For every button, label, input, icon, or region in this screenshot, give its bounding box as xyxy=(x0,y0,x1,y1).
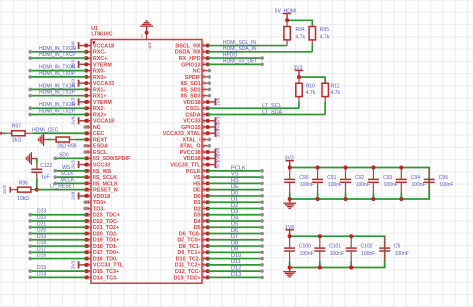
pin 70 IIS_SD1 (right) xyxy=(181,80,212,87)
svg-text:WS: WS xyxy=(62,165,71,171)
wire net DE xyxy=(208,184,264,191)
node rail junction xyxy=(316,166,320,170)
svg-text:3V3: 3V3 xyxy=(71,260,77,269)
svg-text:HDMI_CEC: HDMI_CEC xyxy=(32,127,59,133)
svg-text:D5: D5 xyxy=(194,225,201,231)
supply 3V3 at pin VCC33_TTL xyxy=(206,160,222,169)
supply 3V3 at R96 xyxy=(2,185,10,194)
svg-text:RX2+: RX2+ xyxy=(93,112,107,118)
capacitor C122 1uF xyxy=(31,158,52,181)
svg-text:D19_TD1+: D19_TD1+ xyxy=(93,238,119,244)
node rail junction xyxy=(288,166,292,170)
svg-text:D2: D2 xyxy=(231,203,238,209)
pin 45 D7_TC0+ (right) xyxy=(177,237,209,244)
svg-text:VCCA18: VCCA18 xyxy=(93,119,114,125)
ground at EP xyxy=(140,21,153,33)
wire net PCLK xyxy=(208,165,264,172)
svg-text:69: 69 xyxy=(200,86,205,91)
svg-text:1V8: 1V8 xyxy=(285,225,294,231)
svg-text:NC: NC xyxy=(93,125,101,131)
svg-text:77: 77 xyxy=(140,34,144,38)
svg-text:RX1-: RX1- xyxy=(93,87,105,93)
svg-text:ESCL: ESCL xyxy=(93,150,108,156)
pin 52 D0 (right) xyxy=(194,193,210,200)
svg-text:D16: D16 xyxy=(37,253,46,259)
svg-text:VCCA33: VCCA33 xyxy=(93,81,114,87)
svg-text:HDMI_IN_TXCP: HDMI_IN_TXCP xyxy=(39,52,76,58)
wire net D12 xyxy=(208,266,264,273)
svg-text:47: 47 xyxy=(200,224,205,229)
wire net HDMI_IN_TX2N xyxy=(28,102,86,110)
svg-text:HDMI_IN_TXCN: HDMI_IN_TXCN xyxy=(39,46,76,52)
svg-text:4.7k: 4.7k xyxy=(331,90,341,96)
svg-text:62: 62 xyxy=(200,130,205,135)
capacitor C92 100nF xyxy=(340,168,370,200)
svg-text:EP: EP xyxy=(147,43,152,49)
svg-text:TD3+: TD3+ xyxy=(93,200,106,206)
wire net D10 xyxy=(208,253,264,260)
svg-text:1V8: 1V8 xyxy=(71,191,77,200)
wire 1V8 rail top xyxy=(290,236,385,267)
wire 5V to R95 xyxy=(287,20,312,26)
svg-text:HDMI_IN_TX2P: HDMI_IN_TX2P xyxy=(39,108,76,114)
svg-text:56: 56 xyxy=(200,168,205,173)
pin 29 D22_TDC- (left) xyxy=(84,218,119,225)
svg-text:3V3: 3V3 xyxy=(294,66,303,72)
node rail junction xyxy=(371,166,375,170)
supply 1V8 at pin VDD18 xyxy=(206,154,222,163)
svg-text:RX_HPD: RX_HPD xyxy=(179,56,201,62)
svg-text:PCLK: PCLK xyxy=(231,165,246,171)
svg-text:1uF: 1uF xyxy=(41,175,50,181)
wire net D15 xyxy=(28,265,86,273)
resistor R97 2k xyxy=(6,123,33,143)
svg-text:D21_TD2+: D21_TD2+ xyxy=(93,225,119,231)
svg-text:76: 76 xyxy=(200,43,205,48)
svg-text:DE: DE xyxy=(193,188,201,194)
svg-text:D20: D20 xyxy=(37,228,46,234)
svg-text:1V8: 1V8 xyxy=(71,116,77,125)
svg-text:100nF: 100nF xyxy=(361,251,375,257)
supply 3V3 at pin VCCA33 xyxy=(71,79,89,88)
pin 47 D5 (right) xyxy=(194,224,210,231)
svg-text:RXC-: RXC- xyxy=(93,50,106,56)
resistor R95 4.7k xyxy=(309,27,330,52)
wire net D23 xyxy=(28,209,86,217)
svg-text:5V_HDMI: 5V_HDMI xyxy=(275,9,297,15)
pin 13 VCCA18 (left) xyxy=(85,118,114,125)
svg-text:D6_TC0-: D6_TC0- xyxy=(179,231,201,237)
svg-text:D22_TDC-: D22_TDC- xyxy=(93,219,119,225)
svg-text:LT_SCL: LT_SCL xyxy=(262,103,281,109)
ground at R98 xyxy=(39,133,57,146)
svg-text:52: 52 xyxy=(200,193,205,198)
svg-text:100nF: 100nF xyxy=(328,182,342,188)
pin 57 VCC33_TTL (right) xyxy=(170,162,207,169)
svg-text:RESET_N: RESET_N xyxy=(93,188,118,194)
capacitor C102 100nF xyxy=(346,236,376,267)
svg-text:SPDIF: SPDIF xyxy=(185,75,202,81)
wire net HDMI_IN_TX2P xyxy=(28,108,86,116)
svg-text:2kΩ R98: 2kΩ R98 xyxy=(57,143,77,149)
pin 76 DSCL_RX (right) xyxy=(175,43,209,50)
svg-text:DSDA_RX: DSDA_RX xyxy=(175,50,201,56)
pin 68 IIS_SD3 (right) xyxy=(181,93,212,100)
node rail junction xyxy=(399,166,403,170)
svg-text:D23: D23 xyxy=(37,209,46,215)
svg-text:DE: DE xyxy=(231,184,239,190)
pin 74 RX_HPD (right) xyxy=(179,55,210,62)
svg-text:VCCA18: VCCA18 xyxy=(93,43,114,49)
svg-text:42: 42 xyxy=(200,256,205,261)
svg-text:D3: D3 xyxy=(231,209,238,215)
svg-text:HDMI_IN_TX0N: HDMI_IN_TX0N xyxy=(39,65,76,71)
pin 51 D1 (right) xyxy=(194,199,210,206)
svg-text:REXT: REXT xyxy=(93,137,108,143)
svg-text:D16_TD0-: D16_TD0- xyxy=(93,256,118,262)
svg-text:D3: D3 xyxy=(194,213,201,219)
pin 41 D11_TC2+ (right) xyxy=(175,262,210,269)
svg-text:60: 60 xyxy=(200,143,205,148)
pin 25 VDD18 (left) xyxy=(85,193,110,200)
node rail junction xyxy=(349,234,353,238)
pin 48 D4 (right) xyxy=(194,218,210,225)
supply 3V3 at R10 xyxy=(294,66,304,78)
pin 16 REXT (left) xyxy=(84,137,108,144)
svg-text:2kΩ: 2kΩ xyxy=(12,137,21,143)
svg-text:HDMI_IN_TX2N: HDMI_IN_TX2N xyxy=(39,102,76,108)
pin 65 CSDA (right) xyxy=(185,111,209,118)
wire net D6 xyxy=(208,228,264,235)
svg-text:HDMI_IN_TX0P: HDMI_IN_TX0P xyxy=(39,71,76,77)
pin 58 VDD18 (right) xyxy=(183,155,207,162)
pin 8 RX1- (left) xyxy=(84,87,105,93)
svg-text:D7: D7 xyxy=(231,234,238,240)
svg-text:IIS_SCLK: IIS_SCLK xyxy=(93,175,117,181)
wire 3V3 to R11 xyxy=(299,77,325,83)
node rail junction xyxy=(318,234,322,238)
pin 54 HS (right) xyxy=(193,180,210,187)
resistor R11 4.7k xyxy=(322,83,341,114)
svg-text:IIS_SD1: IIS_SD1 xyxy=(181,81,201,87)
svg-text:3V3: 3V3 xyxy=(285,156,294,162)
wire net HPDO xyxy=(208,52,264,60)
wire net D20 xyxy=(28,228,86,236)
svg-text:D4: D4 xyxy=(194,219,201,225)
pin 28 D23_TDC+ (left) xyxy=(84,212,120,219)
wire net D0 xyxy=(208,190,264,197)
svg-text:3V3: 3V3 xyxy=(216,160,222,169)
wire net D4 xyxy=(208,215,264,222)
capacitor C94 100nF xyxy=(396,168,426,200)
svg-text:100nF: 100nF xyxy=(395,251,409,257)
resistor R10 4.7k xyxy=(296,77,316,108)
wire net D9 xyxy=(208,247,264,254)
pin 33 D18_TD1- (left) xyxy=(84,243,118,250)
svg-text:D7_TC0+: D7_TC0+ xyxy=(177,238,200,244)
pin 18 ESCL (left) xyxy=(83,149,108,156)
svg-text:XTAL_O: XTAL_O xyxy=(180,144,201,150)
pin 37 D15_TC3+ (left) xyxy=(84,268,119,275)
pin 40 D12_TCC- (right) xyxy=(175,268,210,275)
svg-text:C101: C101 xyxy=(329,244,341,250)
svg-text:D19: D19 xyxy=(37,234,46,240)
wire net MCLK xyxy=(54,177,87,185)
pin 55 VS (right) xyxy=(193,174,209,181)
svg-text:D14_TC3-: D14_TC3- xyxy=(93,275,118,281)
pin 72 NC (right) xyxy=(193,68,211,75)
wire net D19 xyxy=(28,234,86,242)
svg-text:D20_TD2-: D20_TD2- xyxy=(93,231,118,237)
svg-text:44: 44 xyxy=(200,243,205,248)
pin 71 SPDIF (right) xyxy=(185,74,211,81)
pin 73 GPIO13 (right) xyxy=(181,61,210,68)
supply 3V3 at pin GPIO15 xyxy=(206,122,222,131)
pin 14 NC (left) xyxy=(83,124,100,131)
wire net SCLK xyxy=(54,171,87,179)
svg-text:HDMI_SCL_IN: HDMI_SCL_IN xyxy=(223,40,256,46)
wire 3V3 rail top xyxy=(290,168,430,200)
svg-text:RX2-: RX2- xyxy=(93,106,105,112)
wire net LT_SDA xyxy=(208,109,326,115)
svg-text:GPIO13: GPIO13 xyxy=(181,62,200,68)
svg-text:PVCC18: PVCC18 xyxy=(180,150,201,156)
pin 20 VCC33 (left) xyxy=(85,162,110,169)
svg-text:VCC33: VCC33 xyxy=(93,162,110,168)
svg-text:D22: D22 xyxy=(37,215,46,221)
svg-text:RXC+: RXC+ xyxy=(93,56,108,62)
svg-text:D1: D1 xyxy=(194,200,201,206)
pin 19 IIS_SD0/SPDIF (left) xyxy=(84,155,131,162)
pin 62 VCCA33_XTAL (right) xyxy=(163,130,208,137)
svg-text:D17: D17 xyxy=(37,246,46,252)
pin 75 DSDA_RX (right) xyxy=(175,49,210,56)
svg-text:C90: C90 xyxy=(299,175,308,181)
svg-text:61: 61 xyxy=(200,137,205,142)
supply 3V3 at pin VCC33 xyxy=(71,160,89,169)
wire net D2 xyxy=(208,203,264,210)
svg-text:D8_TC1-: D8_TC1- xyxy=(179,244,201,250)
svg-text:SD0: SD0 xyxy=(59,152,69,158)
wire net D8 xyxy=(208,240,264,247)
pin 50 D2 (right) xyxy=(194,205,210,212)
svg-text:4.7k: 4.7k xyxy=(306,90,316,96)
svg-text:HS: HS xyxy=(193,181,201,187)
svg-text:HDMI_5V_DET: HDMI_5V_DET xyxy=(223,59,257,65)
wire R98 to REXT xyxy=(76,139,86,141)
pin 12 RX2+ (left) xyxy=(84,111,106,118)
pin 30 D21_TD2+ (left) xyxy=(84,224,119,231)
supply 3V3 at cap bank 1 xyxy=(285,156,294,168)
pin 1 VCCA18 (left) xyxy=(85,43,114,49)
svg-text:10kΩ: 10kΩ xyxy=(17,196,29,202)
node reset junction xyxy=(35,188,39,192)
svg-text:VDD18: VDD18 xyxy=(93,194,110,200)
wire net D21 xyxy=(28,221,86,229)
wire net LT_SCL xyxy=(208,103,299,109)
pin 66 CSCL (right) xyxy=(186,105,210,112)
svg-text:D12: D12 xyxy=(231,266,241,272)
svg-text:D17_TD0+: D17_TD0+ xyxy=(93,250,119,256)
svg-text:C122: C122 xyxy=(40,163,52,169)
svg-text:R97: R97 xyxy=(12,123,22,129)
pin 46 D6_TC0- (right) xyxy=(179,231,210,238)
ground at cap bank 1 xyxy=(283,199,296,208)
wire net D18 xyxy=(28,240,86,248)
svg-text:3V3: 3V3 xyxy=(216,129,222,138)
svg-text:D6: D6 xyxy=(231,228,238,234)
wire net D14 xyxy=(28,271,86,279)
wire net HDMI_SDA_IN xyxy=(208,46,313,52)
svg-text:73: 73 xyxy=(200,61,205,66)
svg-text:CSDA: CSDA xyxy=(185,112,200,118)
wire net WS xyxy=(54,165,87,173)
svg-text:LT_SDA: LT_SDA xyxy=(262,109,282,115)
pin 27 TD3- (left) xyxy=(83,205,105,212)
pin 26 TD3+ (left) xyxy=(83,199,106,206)
svg-text:VDD18: VDD18 xyxy=(183,100,200,106)
svg-text:D5: D5 xyxy=(231,222,238,228)
svg-text:D10_TC2-: D10_TC2- xyxy=(176,256,201,262)
pin 60 XTAL_O (right) xyxy=(180,143,211,150)
supply 3V3 at pin VTERM xyxy=(71,97,89,106)
svg-text:HDMI_IN_TX1N: HDMI_IN_TX1N xyxy=(39,83,76,89)
supply 1V8 at pin VDD18 xyxy=(206,97,222,106)
resistor R94 4.7k xyxy=(284,20,306,45)
svg-text:3V3: 3V3 xyxy=(2,185,8,194)
svg-text:D0: D0 xyxy=(194,194,201,200)
svg-text:55: 55 xyxy=(200,174,205,179)
pin 34 D17_TD0+ (left) xyxy=(84,249,119,256)
supply 1V8 at pin PVCC18 xyxy=(206,147,222,156)
svg-text:C5: C5 xyxy=(394,244,401,250)
svg-text:IIS_SD3: IIS_SD3 xyxy=(181,94,201,100)
svg-text:D21: D21 xyxy=(37,221,46,227)
capacitor C5 100nF xyxy=(379,236,409,267)
wire C122 to reset node xyxy=(36,178,38,190)
svg-text:D23_TDC+: D23_TDC+ xyxy=(93,213,120,219)
svg-text:C91: C91 xyxy=(327,175,336,181)
wire net HDMI_IN_TX1P xyxy=(28,90,86,98)
svg-text:100nF: 100nF xyxy=(384,182,398,188)
svg-text:PCLK: PCLK xyxy=(186,169,201,175)
pin 4 VTERM (left) xyxy=(85,62,112,68)
wire net D7 xyxy=(208,234,264,241)
svg-text:D11_TC2+: D11_TC2+ xyxy=(175,263,201,269)
svg-text:SCLK: SCLK xyxy=(61,171,75,177)
svg-text:IIS_SD2: IIS_SD2 xyxy=(181,87,201,93)
svg-text:LT_RESET: LT_RESET xyxy=(50,184,75,190)
node 5V junction xyxy=(285,18,289,22)
wire net HS xyxy=(208,178,264,185)
supply 3V3 at pin VTERM xyxy=(71,60,89,69)
wire net HDMI_IN_TX0P xyxy=(28,71,86,79)
wire net HDMI_IN_TXCP xyxy=(28,52,86,60)
svg-text:VCC33_TTL: VCC33_TTL xyxy=(170,162,201,168)
svg-text:100nF: 100nF xyxy=(300,251,314,257)
svg-text:48: 48 xyxy=(200,218,205,223)
svg-text:D4: D4 xyxy=(231,215,238,221)
supply 1V8 at pin VCCA18 xyxy=(71,116,89,125)
pin 17 ESDA (left) xyxy=(83,143,108,150)
svg-text:45: 45 xyxy=(200,237,205,242)
svg-text:49: 49 xyxy=(200,212,205,217)
svg-text:VTERM: VTERM xyxy=(93,62,112,68)
pin 24 RESET_N (left) xyxy=(84,187,118,194)
supply 1V8 at cap bank 2 xyxy=(285,225,294,236)
pin 7 VCCA33 (left) xyxy=(85,81,114,87)
svg-text:1V8: 1V8 xyxy=(216,97,222,106)
pin 15 CEC (left) xyxy=(84,130,104,137)
svg-text:R96: R96 xyxy=(19,181,28,187)
svg-text:VDD18: VDD18 xyxy=(183,156,200,162)
pin 36 VCC33_TTL (left) xyxy=(85,262,124,269)
svg-text:67: 67 xyxy=(200,99,205,104)
svg-text:ESDA: ESDA xyxy=(93,144,108,150)
svg-text:100nF: 100nF xyxy=(330,251,344,257)
svg-text:LT8619C: LT8619C xyxy=(91,31,112,37)
svg-text:XTAL_I: XTAL_I xyxy=(182,137,201,143)
svg-text:C102: C102 xyxy=(361,244,373,250)
svg-text:C94: C94 xyxy=(411,175,420,181)
wire net D22 xyxy=(28,215,86,223)
svg-text:D2: D2 xyxy=(194,206,201,212)
pin 77 EP (top) xyxy=(140,31,152,49)
pin 39 D13_TCC+ (right) xyxy=(173,274,209,281)
capacitor C91 100nF xyxy=(312,168,342,200)
capacitor C95 100nF xyxy=(424,168,454,200)
wire net D17 xyxy=(28,246,86,254)
wire net VS xyxy=(208,172,264,179)
wire net HDMI_5V_DET xyxy=(208,59,264,67)
pin 56 PCLK (right) xyxy=(186,168,210,175)
svg-text:VCCA33_XTAL: VCCA33_XTAL xyxy=(163,131,202,137)
svg-text:D13_TCC+: D13_TCC+ xyxy=(173,275,200,281)
pin 43 D9_TC1+ (right) xyxy=(177,249,209,256)
svg-text:100nF: 100nF xyxy=(356,182,370,188)
svg-text:D15: D15 xyxy=(37,265,46,271)
capacitor C100 100nF xyxy=(284,236,314,267)
svg-text:74: 74 xyxy=(200,55,205,60)
resistor R96 10k xyxy=(10,181,37,202)
svg-text:41: 41 xyxy=(200,262,205,267)
pin 38 D14_TC3- (left) xyxy=(84,274,118,281)
svg-text:VCC33: VCC33 xyxy=(183,119,200,125)
svg-text:RX0-: RX0- xyxy=(93,69,105,75)
svg-text:D8: D8 xyxy=(231,240,238,246)
pin 22 IIS_SCLK (left) xyxy=(84,174,117,181)
wire net D3 xyxy=(208,209,264,216)
svg-text:NC: NC xyxy=(193,69,201,75)
pin 6 RX0+ (left) xyxy=(84,75,106,81)
node rail junction xyxy=(344,166,348,170)
pin 5 RX0- (left) xyxy=(84,69,105,75)
svg-text:100nF: 100nF xyxy=(300,182,314,188)
svg-text:HDMI_SDA_IN: HDMI_SDA_IN xyxy=(223,46,257,52)
svg-text:DSCL_RX: DSCL_RX xyxy=(175,43,201,49)
svg-text:D12_TCC-: D12_TCC- xyxy=(175,269,201,275)
pin 2 RXC- (left) xyxy=(84,50,106,56)
svg-text:VTERM: VTERM xyxy=(93,100,112,106)
supply 3V3 at pin VCC33_TTL xyxy=(71,260,89,269)
wire net D16 xyxy=(28,253,86,261)
svg-text:MCLK: MCLK xyxy=(61,177,76,183)
supply 5V_HDMI xyxy=(275,9,297,21)
pin 69 IIS_SD2 (right) xyxy=(181,86,212,93)
svg-text:IIS_SD0/SPDIF: IIS_SD0/SPDIF xyxy=(93,156,131,162)
svg-text:D18_TD1-: D18_TD1- xyxy=(93,244,118,250)
node 3V3 junction xyxy=(297,75,301,79)
